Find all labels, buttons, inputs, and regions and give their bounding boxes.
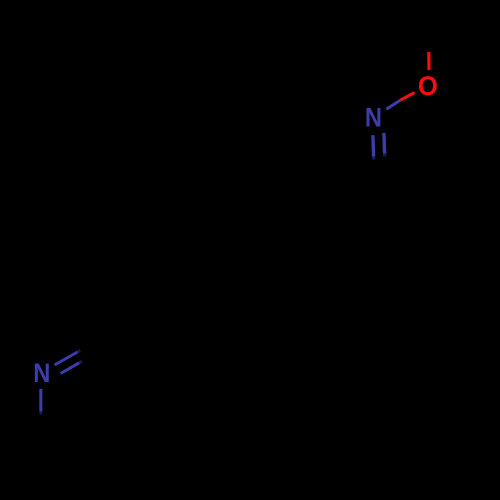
svg-text:N: N [365, 103, 382, 133]
bond N=C2 double, inner line (N half) [61, 363, 80, 374]
bond O-CH3 (O half, methyl stub) [427, 52, 430, 70]
bond N-C6 fade tip [39, 412, 42, 415]
bond N-O (N half) [386, 100, 400, 109]
svg-text:N: N [33, 358, 50, 388]
svg-text:O: O [418, 71, 438, 101]
bond N=C2 double, inner line fade tip [79, 361, 82, 363]
bond N=C2 double, outer line (N half) [55, 352, 78, 365]
bond C=N double, inner line (N half) [382, 133, 386, 154]
bond C=N double, outer line fade tip [372, 157, 376, 160]
bond N-C6 (N half) [39, 389, 42, 412]
bond N=C2 double, outer line fade tip [78, 350, 81, 352]
bond C=N double, outer line (N half) [371, 135, 375, 156]
bond N-O (O half) [400, 93, 414, 101]
bond C=N double, inner line fade tip [383, 154, 387, 157]
